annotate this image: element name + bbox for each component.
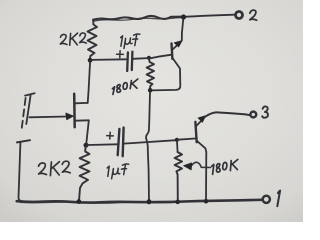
wire node E to base of Q2 xyxy=(178,139,195,140)
resistor R3 2K2 bottom xyxy=(79,147,90,201)
label 2K2 (bottom) xyxy=(39,161,71,175)
node A (2K2 bottom / cap / FET drain) xyxy=(88,58,93,63)
JFET drain riser to node A xyxy=(88,62,90,104)
wire mic to gate with arrow xyxy=(29,116,67,119)
terminal 1 xyxy=(263,196,270,203)
wire node D to capacitor C2 xyxy=(88,143,118,146)
wire node B to base of Q1 xyxy=(150,55,170,58)
resistor R4 180K bottom xyxy=(175,152,182,201)
capacitor C2 plus sign xyxy=(107,132,114,139)
label 180K (top) xyxy=(112,79,137,94)
resistor R2 180K top xyxy=(147,59,154,90)
resistor R4 180K bottom lead from node E xyxy=(176,142,179,153)
node ground 180K xyxy=(175,200,180,205)
node ground 2K2 xyxy=(76,199,81,204)
arrow from label 180K to resistor R4 xyxy=(190,162,211,167)
wire Q1 emitter to top rail xyxy=(182,18,184,41)
wire capacitor C2 to node E xyxy=(124,140,176,143)
capacitor C2 plates xyxy=(118,129,120,155)
microphone bottom plate xyxy=(17,140,30,142)
top supply rail xyxy=(93,16,183,20)
transistor Q1 emitter with arrow xyxy=(172,44,178,50)
transistor Q2 collector with arrow xyxy=(196,121,201,126)
bottom ground rail xyxy=(17,200,262,203)
terminal 2 xyxy=(236,12,243,19)
wire rail to terminal 2 xyxy=(184,15,235,17)
node E (base wire / 180K bottom) xyxy=(175,138,179,142)
capacitor C1 plates xyxy=(126,52,129,71)
node D (source / 2K2 / cap C2) xyxy=(84,143,89,148)
label 3 (terminal) xyxy=(262,106,268,117)
label 2K2 (top) xyxy=(60,33,86,45)
label 1uF (bottom) xyxy=(107,164,129,179)
transistor Q2 emitter wire down xyxy=(197,141,207,201)
transistor Q1 base bar xyxy=(170,44,173,59)
node at top rail xyxy=(181,14,186,19)
node ground mid wire xyxy=(147,199,152,204)
JFET channel bar xyxy=(73,94,76,127)
label 180K (bottom) xyxy=(212,159,238,174)
JFET drain tap xyxy=(75,102,88,104)
JFET source tap xyxy=(75,119,89,121)
mic lower lead to ground rail xyxy=(18,143,21,201)
microphone dashed plate xyxy=(21,98,25,131)
resistor R1 2K2 top xyxy=(88,20,98,60)
label 1 (terminal) xyxy=(277,191,280,207)
wire C1 to node B xyxy=(133,57,148,60)
wire Q2 collector to terminal 3 xyxy=(205,112,250,116)
JFET source drop to node D xyxy=(86,121,89,145)
label 2 (terminal) xyxy=(250,10,257,20)
wire node A to C1 xyxy=(92,58,127,61)
label 1uF (top) xyxy=(121,34,140,48)
capacitor C1 1uF plus sign xyxy=(117,51,124,58)
microphone solid plate with hook xyxy=(25,93,35,124)
transistor Q2 base bar xyxy=(195,122,196,142)
node C (180K bottom / collector Q1 / down wire) xyxy=(148,88,153,93)
wire node C down to ground rail with jog xyxy=(146,92,150,201)
node ground Q2 emitter xyxy=(204,199,209,204)
transistor Q1 collector wire down xyxy=(151,58,180,90)
terminal 3 xyxy=(250,112,256,118)
node B (cap / base Q1 / 180K top) xyxy=(147,56,151,60)
